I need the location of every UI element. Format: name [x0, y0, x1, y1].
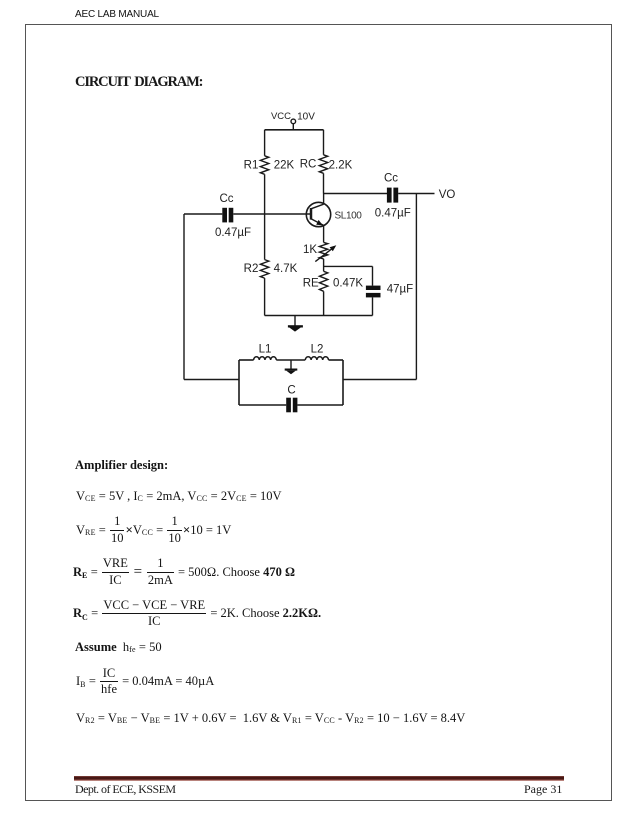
svg-text:R1: R1	[244, 160, 259, 172]
svg-text:L1: L1	[259, 344, 272, 356]
inductor L1	[254, 357, 277, 360]
resistor R1	[260, 156, 268, 175]
svg-text:C: C	[287, 384, 295, 396]
svg-text:VCC: VCC	[271, 111, 291, 122]
svg-text:R2: R2	[244, 263, 259, 275]
wire: tank top right segment	[329, 359, 344, 361]
eq line 5	[75, 638, 162, 656]
eq line 2	[76, 516, 231, 544]
wire: tank bottom left segment	[239, 404, 286, 406]
footer left text	[75, 782, 176, 797]
VCC terminal	[291, 119, 296, 130]
svg-text:47µF: 47µF	[387, 283, 413, 295]
footer right text	[524, 782, 562, 797]
wire: tank left lead	[184, 379, 239, 381]
resistor RE	[319, 271, 327, 291]
wire: R1 to R2 segment (base node crossing)	[264, 174, 266, 259]
svg-text:Cc: Cc	[384, 173, 398, 185]
svg-text:VO: VO	[439, 189, 456, 201]
eq line 3	[73, 558, 295, 586]
wire: tank top middle segment	[276, 359, 305, 361]
svg-text:1K: 1K	[303, 244, 317, 256]
capacitor 47uF	[366, 286, 381, 298]
section heading	[75, 74, 202, 91]
wire: bypass branch lower	[372, 297, 374, 315]
capacitor Cc input	[222, 208, 233, 223]
capacitor C	[286, 398, 297, 413]
wire: tank bottom right segment	[297, 404, 343, 406]
wire: feedback left vertical	[183, 214, 185, 380]
eq line 7	[76, 709, 465, 727]
ground main	[288, 316, 303, 332]
wire: top supply rail	[265, 129, 324, 131]
wire: feedback right vertical	[415, 194, 417, 380]
wire: base right segment	[233, 213, 311, 215]
svg-text:Cc: Cc	[219, 193, 233, 205]
wire: output node to coupling cap	[324, 193, 388, 195]
wire: base left segment	[184, 213, 222, 215]
transistor Q1 SL100	[306, 194, 330, 243]
wire: RC to output node	[323, 173, 325, 193]
wire: RC branch upper	[323, 130, 325, 155]
eq line 4	[73, 599, 321, 628]
svg-text:0.47µF: 0.47µF	[375, 208, 411, 220]
wire: tank left edge	[238, 360, 240, 405]
svg-text:0.47K: 0.47K	[333, 277, 363, 289]
wire: 1K to emitter node	[323, 259, 325, 271]
resistor RC	[319, 155, 327, 174]
wire: R1 branch upper	[264, 130, 266, 156]
resistor R2	[260, 260, 268, 279]
inductor L2	[305, 357, 328, 360]
capacitor Cc output	[387, 188, 398, 203]
svg-text:2.2K: 2.2K	[329, 159, 353, 171]
wire: tank right edge	[342, 360, 344, 405]
footer rule	[74, 776, 565, 781]
amplifier design heading	[75, 456, 168, 474]
wire: ground rail	[265, 315, 373, 317]
svg-text:RE: RE	[303, 277, 319, 289]
wire: tank right lead	[343, 379, 416, 381]
svg-text:RC: RC	[300, 158, 317, 170]
svg-text:0.47µF: 0.47µF	[215, 227, 251, 239]
wire: coupling cap to VO	[398, 193, 434, 195]
rheostat 1K	[315, 242, 336, 261]
svg-text:22K: 22K	[274, 160, 295, 172]
wire: tank top left segment	[239, 359, 254, 361]
eq line 6	[76, 668, 214, 695]
svg-text:L2: L2	[311, 344, 324, 356]
svg-text:10V: 10V	[297, 112, 315, 123]
eq line 1	[76, 487, 282, 505]
svg-text:SL100: SL100	[335, 211, 363, 222]
ground tank center tap	[285, 360, 298, 374]
wire: RE to ground rail	[323, 291, 325, 315]
svg-text:4.7K: 4.7K	[274, 263, 298, 275]
wire: emitter node to bypass branch	[324, 265, 373, 267]
page header text	[75, 9, 159, 20]
wire: R2 to ground rail	[264, 278, 266, 315]
wire: bypass branch upper	[372, 266, 374, 285]
